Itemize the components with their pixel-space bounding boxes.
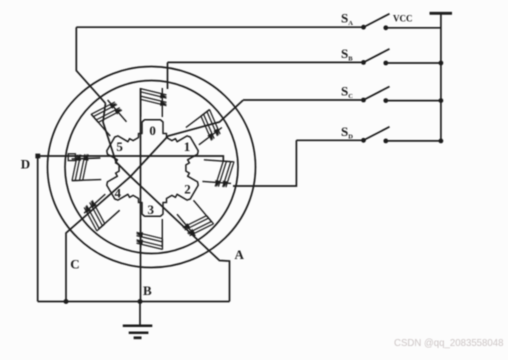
rotor gear	[107, 120, 198, 216]
VCC bar	[430, 12, 453, 15]
junction C	[64, 299, 69, 304]
svg-text:5: 5	[116, 139, 123, 154]
stator pole 4:30 (A bottom)	[177, 200, 214, 236]
wire SB to pole	[167, 62, 169, 89]
svg-text:VCC: VCC	[393, 14, 413, 24]
stator pole 9:00 (D left)	[72, 154, 102, 181]
switch SD	[296, 127, 441, 144]
svg-text:CSDN @qq_2083558048: CSDN @qq_2083558048	[394, 338, 504, 349]
svg-text:C: C	[70, 256, 79, 271]
junction SB rail	[439, 61, 444, 66]
stator pole 3:00 (D right)	[202, 160, 234, 188]
svg-text:3: 3	[148, 202, 155, 217]
junction SC rail	[439, 98, 444, 103]
stator pole 7:30 (C bottom)	[84, 194, 120, 231]
svg-text:D: D	[21, 156, 30, 171]
phase line B vertical	[140, 88, 142, 302]
wire SA to pole	[76, 27, 105, 103]
switch SB	[168, 49, 441, 66]
svg-text:A: A	[235, 247, 245, 262]
switch SC	[243, 87, 441, 104]
stator outer circle	[48, 67, 256, 268]
stator pole 6:00 (B bottom)	[136, 219, 163, 250]
node D dot	[35, 154, 40, 159]
svg-text:B: B	[143, 283, 152, 298]
wire SD to pole	[233, 140, 296, 186]
wire D vertical	[37, 156, 39, 302]
VCC rail	[440, 13, 442, 141]
svg-text:0: 0	[149, 123, 156, 138]
svg-text:2: 2	[184, 182, 191, 197]
phase line D horizontal	[38, 156, 224, 161]
junction B	[138, 299, 143, 304]
stator pole 12:00 (B top)	[141, 88, 168, 117]
9:00 pole root square	[68, 154, 75, 161]
junction SD rail	[439, 139, 444, 144]
svg-text:1: 1	[184, 139, 191, 154]
stator inner circle	[65, 81, 238, 254]
bottom bus wire	[38, 301, 230, 303]
phase line C diagonal	[66, 100, 243, 301]
stator pole 10:30 (A top)	[91, 100, 127, 136]
phase line A diagonal	[103, 103, 230, 301]
switch SA	[76, 14, 441, 31]
ground	[123, 302, 153, 338]
stator pole 1:30 (C top)	[186, 109, 222, 144]
